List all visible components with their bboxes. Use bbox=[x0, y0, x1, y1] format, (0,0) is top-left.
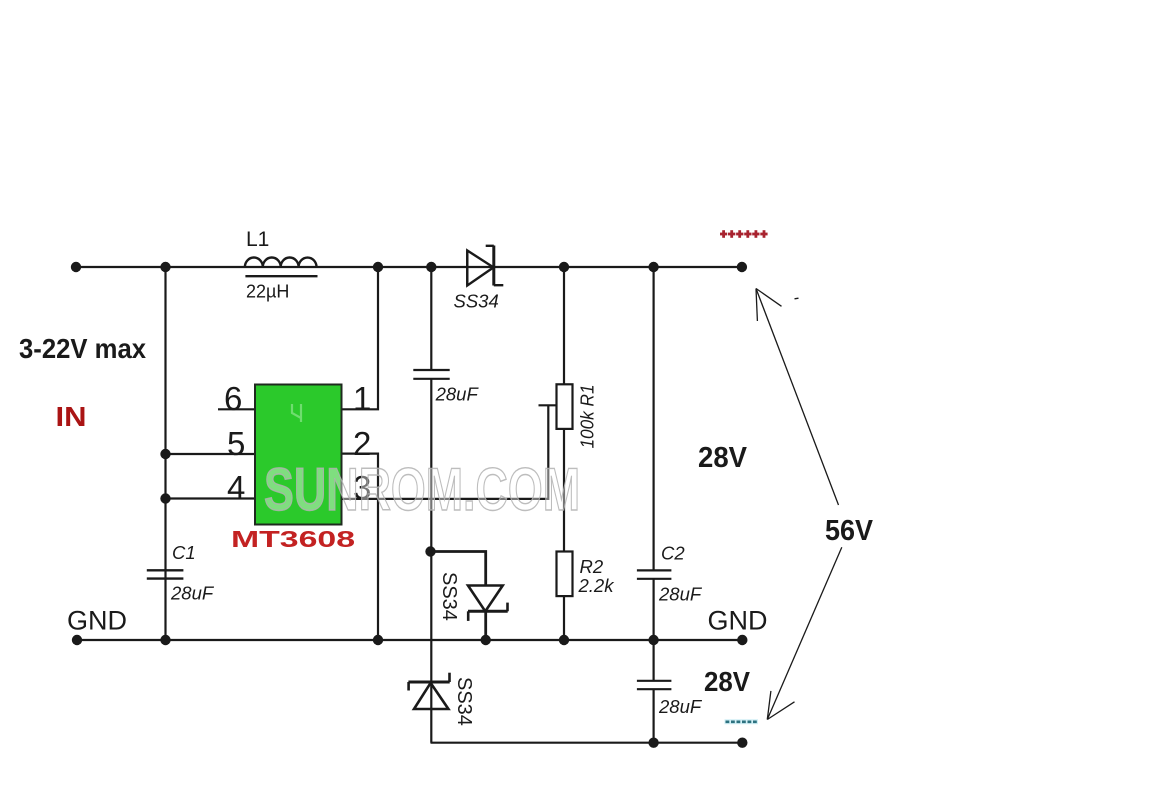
svg-text:56V: 56V bbox=[825, 515, 874, 547]
resistor R1 bbox=[557, 384, 573, 429]
svg-text:SUNROM.COM: SUNROM.COM bbox=[264, 456, 580, 523]
wire left vertical input bbox=[164, 267, 166, 640]
node dot gnd left terminal bbox=[72, 635, 82, 645]
node dot top resistor column bbox=[559, 262, 569, 272]
svg-text:1: 1 bbox=[353, 380, 371, 417]
svg-text:28uF: 28uF bbox=[170, 583, 215, 604]
wire pin1 riser bbox=[342, 267, 378, 409]
node dot pin4 bbox=[160, 493, 170, 503]
wire pin5 bbox=[166, 453, 255, 455]
capacitor C3 bottom bbox=[637, 681, 672, 689]
svg-text:28V: 28V bbox=[704, 666, 750, 697]
wire pin3 feedback bbox=[342, 405, 548, 499]
svg-text:MT3608: MT3608 bbox=[231, 526, 355, 552]
svg-text:28V: 28V bbox=[698, 442, 748, 474]
node dot gnd right terminal bbox=[737, 635, 747, 645]
IC U1 MT3608 body bbox=[255, 385, 342, 525]
arrow up to plus bbox=[756, 289, 839, 506]
capacitor C1 bbox=[147, 570, 184, 578]
node dot top IN terminal bbox=[71, 262, 81, 272]
node dot gnd left column bbox=[160, 635, 170, 645]
label plus terminal bbox=[720, 230, 768, 238]
diode D3 SS34 bottom bbox=[408, 673, 449, 709]
node dot bottom output terminal bbox=[737, 738, 747, 748]
svg-text:SS34: SS34 bbox=[453, 677, 475, 726]
wire ground rail bbox=[77, 639, 742, 641]
wire diode D2 to ground bbox=[484, 611, 487, 640]
svg-text:SS34: SS34 bbox=[438, 572, 460, 621]
svg-text:IN: IN bbox=[56, 401, 87, 432]
svg-text:GND: GND bbox=[67, 606, 127, 636]
capacitor C4 mid 28uF bbox=[413, 370, 449, 379]
svg-text:GND: GND bbox=[708, 606, 768, 636]
wire pin6 stub bbox=[218, 408, 255, 410]
svg-text:6: 6 bbox=[224, 380, 242, 417]
svg-text:R2: R2 bbox=[580, 556, 604, 577]
svg-text:5: 5 bbox=[227, 425, 245, 462]
capacitor C2 bbox=[637, 570, 672, 578]
svg-text:100k R1: 100k R1 bbox=[577, 385, 598, 449]
node dot bottom C3 bbox=[648, 738, 658, 748]
wire top rail bbox=[76, 266, 742, 268]
decoration small dash bbox=[795, 297, 799, 300]
node dot D2 branch bbox=[425, 546, 435, 556]
svg-text:C2: C2 bbox=[661, 543, 685, 564]
node dot pin5 bbox=[160, 449, 170, 459]
inductor L1 bbox=[245, 257, 318, 276]
svg-text:3-22V max: 3-22V max bbox=[19, 333, 146, 364]
svg-text:L1: L1 bbox=[246, 228, 269, 251]
resistor R2 bbox=[557, 552, 573, 597]
node dot top C2 column bbox=[648, 262, 658, 272]
svg-text:C1: C1 bbox=[172, 542, 196, 563]
arrow down to minus bbox=[767, 547, 842, 719]
svg-text:4: 4 bbox=[227, 469, 245, 506]
wire mid capacitor column bbox=[430, 267, 432, 743]
svg-text:22µH: 22µH bbox=[246, 282, 289, 302]
node dot gnd C2 bbox=[648, 635, 658, 645]
node dot gnd resistor bbox=[559, 635, 569, 645]
node dot gnd D2 bbox=[481, 635, 491, 645]
svg-text:28uF: 28uF bbox=[658, 584, 703, 605]
node dot top left column bbox=[160, 262, 170, 272]
svg-text:28uF: 28uF bbox=[658, 696, 703, 717]
wire bottom output rail bbox=[431, 742, 743, 744]
diode D1 SS34 top bbox=[467, 246, 503, 286]
wire diode D2 branch bbox=[431, 552, 486, 586]
node dot top output terminal bbox=[737, 262, 747, 272]
label minus terminal bbox=[725, 719, 759, 724]
svg-text:SS34: SS34 bbox=[454, 291, 499, 312]
wire output capacitor column bbox=[652, 267, 654, 743]
diode D2 SS34 middle bbox=[468, 586, 508, 621]
svg-text:28uF: 28uF bbox=[435, 384, 480, 405]
node dot gnd pin2 bbox=[373, 635, 383, 645]
decoration inner mark bbox=[292, 404, 301, 422]
node dot top mid cap bbox=[426, 262, 436, 272]
wire pin2 to ground bbox=[342, 454, 378, 640]
svg-text:2.2k: 2.2k bbox=[578, 575, 616, 596]
wire pin4 bbox=[166, 497, 255, 499]
wire resistor column bbox=[563, 267, 565, 640]
node dot top pin1 riser bbox=[373, 262, 383, 272]
